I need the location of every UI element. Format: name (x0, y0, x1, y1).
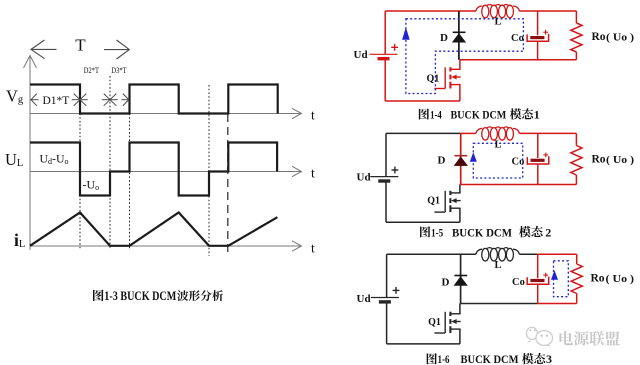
svg-text:D1*T: D1*T (43, 95, 70, 107)
svg-text:L: L (495, 17, 502, 28)
svg-text:Ro: Ro (592, 31, 606, 43)
svg-text:t: t (311, 241, 315, 256)
svg-text:D2*T: D2*T (84, 65, 100, 75)
svg-text:Co: Co (511, 33, 524, 44)
svg-text:1: 1 (534, 108, 540, 122)
svg-text:( Uo ): ( Uo ) (606, 154, 634, 166)
svg-text:D: D (438, 155, 446, 167)
svg-text:Co: Co (512, 157, 525, 168)
svg-text:Ud: Ud (357, 293, 371, 305)
svg-text:Q1: Q1 (427, 74, 440, 85)
svg-text:( Uo ): ( Uo ) (606, 32, 634, 44)
svg-text:Ro: Ro (592, 154, 606, 166)
svg-text:BUCK DCM: BUCK DCM (452, 225, 512, 239)
svg-text:Q1: Q1 (427, 196, 440, 207)
svg-text:Ud-Uo: Ud-Uo (40, 152, 69, 167)
svg-text:1-5: 1-5 (431, 225, 443, 239)
svg-text:T: T (75, 36, 86, 55)
svg-text:1-6: 1-6 (438, 352, 450, 365)
svg-text:Ro: Ro (591, 273, 605, 285)
svg-text:1-3 BUCK DCM: 1-3 BUCK DCM (104, 289, 176, 303)
svg-text:2: 2 (545, 225, 551, 239)
svg-text:t: t (311, 108, 315, 123)
svg-text:D: D (442, 276, 450, 288)
svg-text:L: L (495, 139, 502, 150)
svg-text:Co: Co (512, 277, 525, 288)
svg-text:L: L (495, 260, 502, 271)
svg-text:( Uo ): ( Uo ) (606, 273, 635, 285)
svg-text:D: D (440, 32, 448, 44)
svg-text:BUCK DCM: BUCK DCM (461, 352, 519, 365)
svg-text:t: t (311, 166, 315, 181)
svg-text:3: 3 (546, 352, 552, 365)
svg-text:Ud: Ud (354, 49, 368, 61)
svg-text:BUCK DCM: BUCK DCM (451, 108, 507, 122)
svg-text:1-4: 1-4 (430, 108, 442, 122)
svg-text:Q1: Q1 (428, 317, 441, 328)
svg-text:Ud: Ud (357, 172, 371, 184)
svg-text:D3*T: D3*T (111, 65, 127, 75)
